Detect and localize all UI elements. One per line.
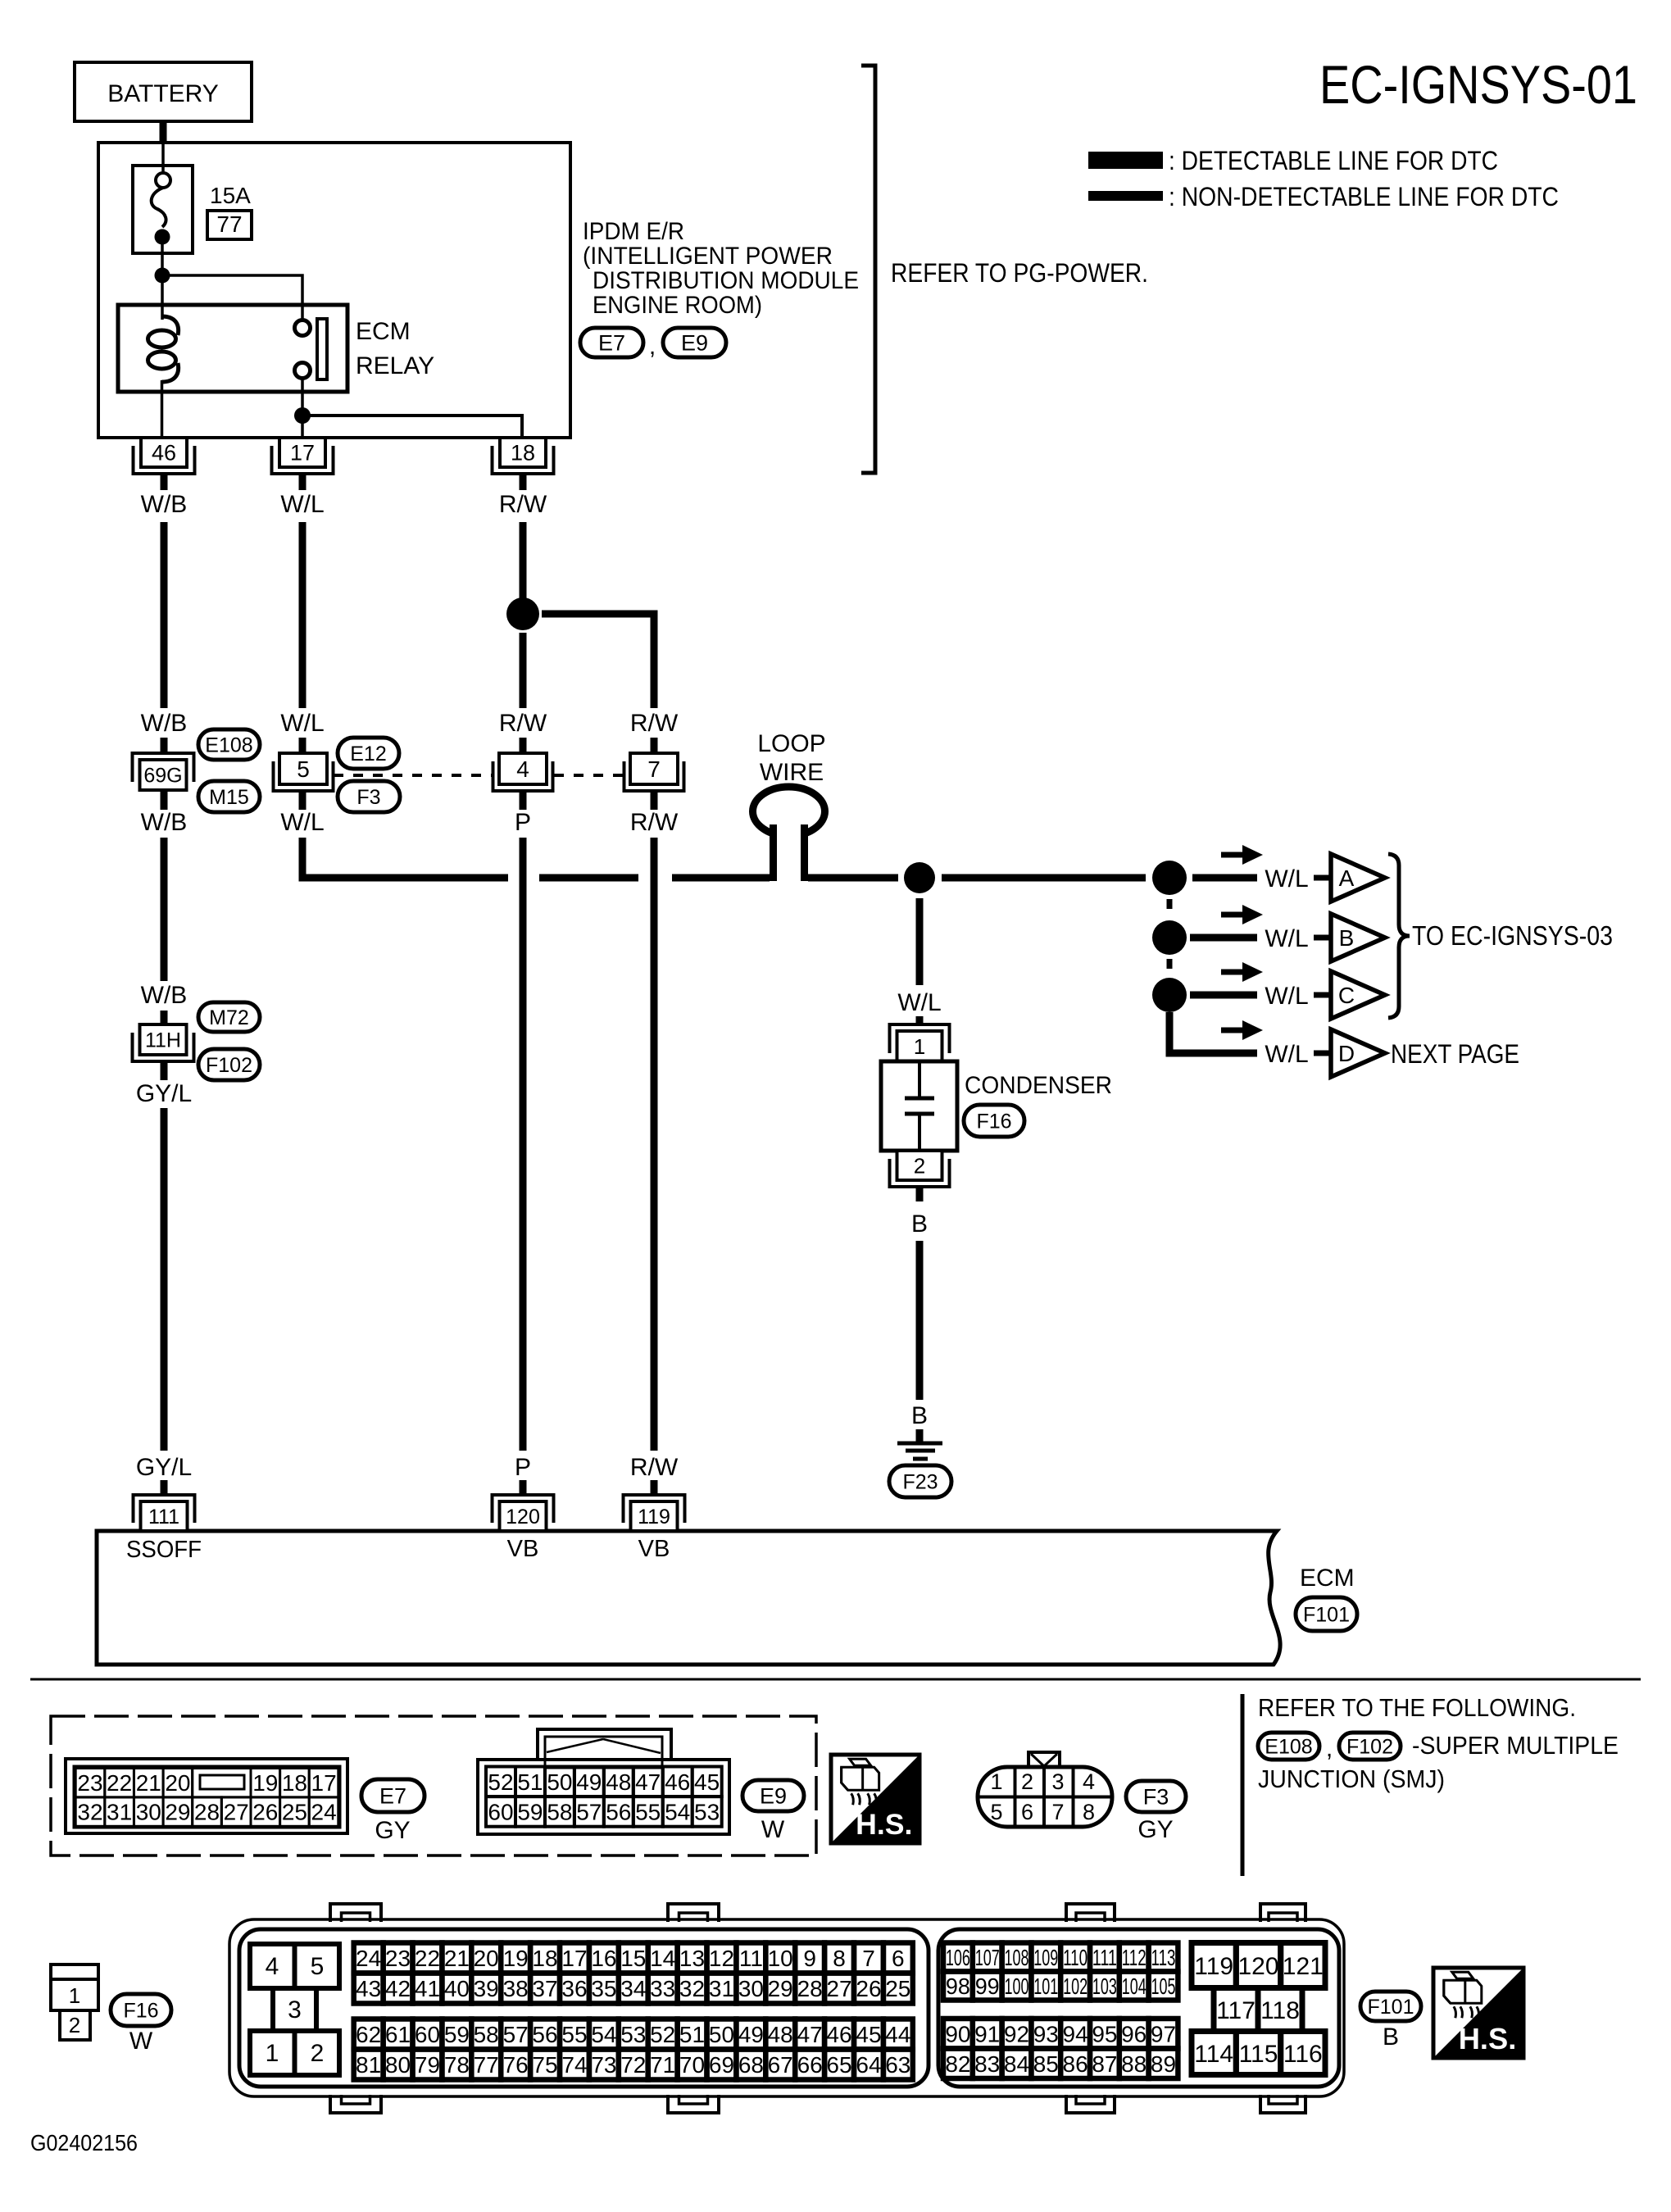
oval E9 [742, 1780, 804, 1811]
junction dot R/W [506, 597, 539, 630]
svg-text:20: 20 [474, 1946, 499, 1971]
svg-text:(INTELLIGENT POWER: (INTELLIGENT POWER [583, 243, 833, 270]
svg-text:91: 91 [974, 2021, 1000, 2046]
svg-text:27: 27 [224, 1800, 249, 1825]
svg-text:112: 112 [1122, 1945, 1147, 1970]
svg-text:34: 34 [620, 1976, 646, 2001]
connector E7 view [66, 1759, 347, 1833]
svg-text:20: 20 [165, 1770, 190, 1796]
pin grid 90-97 / 82-89 [943, 2019, 1178, 2078]
svg-text:45: 45 [856, 2022, 881, 2047]
connector ref E7 oval [580, 328, 643, 357]
arrow row B [1221, 912, 1244, 918]
svg-text:70: 70 [679, 2052, 705, 2078]
svg-text:W/L: W/L [1265, 983, 1308, 1010]
legend detectable line [1088, 146, 1498, 175]
wire B long [916, 1241, 924, 1400]
svg-text:W/L: W/L [1265, 925, 1308, 952]
svg-text:72: 72 [620, 2052, 646, 2078]
svg-text:115: 115 [1239, 2041, 1278, 2068]
svg-text:90: 90 [945, 2021, 970, 2046]
svg-text:2: 2 [311, 2040, 325, 2067]
junction dot B [1152, 920, 1187, 955]
connector 69G (SMJ) [140, 760, 187, 790]
svg-text:65: 65 [826, 2052, 851, 2078]
svg-text:1: 1 [69, 1983, 80, 2008]
pin 18 [500, 438, 546, 467]
svg-text:102: 102 [1063, 1974, 1088, 1999]
svg-text:68: 68 [738, 2052, 764, 2078]
IPDM E/R box [98, 143, 570, 438]
svg-text:116: 116 [1283, 2041, 1323, 2068]
svg-text:27: 27 [826, 1976, 851, 2001]
svg-text:19: 19 [503, 1946, 529, 1971]
wire dot C to triangle C [1190, 992, 1257, 999]
svg-text:101: 101 [1033, 1974, 1058, 1999]
wire stub to pin 111 [161, 1480, 168, 1494]
svg-text:9: 9 [803, 1946, 816, 1971]
svg-text:F16: F16 [123, 2000, 158, 2023]
pin block 4 5 3 1 2 [250, 1944, 339, 2075]
svg-text:100: 100 [1005, 1974, 1029, 1999]
connector 11H (SMJ) [140, 1024, 187, 1055]
svg-text:18: 18 [511, 441, 535, 466]
svg-text:3: 3 [1051, 1769, 1064, 1794]
svg-text:106: 106 [946, 1945, 970, 1970]
stub row B [1314, 935, 1329, 941]
stub row A [1314, 875, 1329, 881]
svg-text:23: 23 [385, 1946, 411, 1971]
svg-text:W/B: W/B [141, 710, 188, 737]
wire stub to ground [916, 1429, 924, 1442]
stub row C [1314, 992, 1329, 998]
svg-text:F3: F3 [1143, 1785, 1169, 1810]
svg-text:SSOFF: SSOFF [126, 1537, 202, 1563]
svg-text:12: 12 [709, 1946, 734, 1971]
svg-text:19: 19 [252, 1770, 278, 1796]
triangle A [1331, 854, 1385, 902]
svg-text:R/W: R/W [499, 491, 547, 518]
oval F23 [889, 1465, 951, 1497]
svg-text:31: 31 [107, 1800, 132, 1825]
oval M72 [198, 1002, 260, 1032]
svg-text:: NON-DETECTABLE LINE FOR DTC: : NON-DETECTABLE LINE FOR DTC [1169, 182, 1559, 211]
svg-text:TO EC-IGNSYS-03: TO EC-IGNSYS-03 [1412, 920, 1613, 951]
H.S. logo top [831, 1755, 920, 1843]
svg-text:7: 7 [1051, 1800, 1064, 1824]
svg-text:57: 57 [503, 2022, 529, 2047]
wire junction to relay contact [162, 275, 302, 320]
svg-text:30: 30 [136, 1800, 161, 1825]
svg-text:76: 76 [503, 2052, 529, 2078]
junction dot below contact [294, 407, 311, 424]
fuse 15A box [133, 166, 193, 253]
svg-text:W/B: W/B [141, 982, 188, 1009]
svg-text:GY: GY [1137, 1816, 1173, 1843]
svg-text:17: 17 [561, 1946, 587, 1971]
svg-text:2: 2 [69, 2013, 80, 2037]
svg-text:33: 33 [650, 1976, 675, 2001]
wire battery to IPDM [160, 121, 167, 143]
svg-text:17: 17 [290, 441, 315, 466]
wire stub to condenser pin 1 [916, 1016, 924, 1026]
wire dot A to triangle A [1192, 874, 1257, 882]
svg-text:79: 79 [415, 2052, 440, 2078]
svg-text:B: B [1339, 925, 1355, 951]
wire below connector 7 [651, 791, 658, 810]
svg-text:7: 7 [862, 1946, 875, 1971]
svg-text:77: 77 [474, 2052, 499, 2078]
dashed line connector 5 to 4 [334, 774, 492, 777]
svg-text:51: 51 [517, 1769, 543, 1795]
arrow row A [1221, 852, 1244, 858]
svg-text:ECM: ECM [356, 318, 411, 345]
separator line [30, 1678, 1641, 1681]
svg-text:5: 5 [297, 756, 310, 782]
connector ref E9 oval [663, 328, 726, 357]
wire W/B long [161, 522, 168, 708]
svg-text:F102: F102 [1346, 1736, 1393, 1759]
svg-text:53: 53 [694, 1799, 720, 1824]
svg-text:E108: E108 [1265, 1736, 1312, 1759]
pin grid 106-113 / 98-105 [943, 1943, 1178, 2001]
svg-text:73: 73 [591, 2052, 616, 2078]
svg-text:84: 84 [1004, 2051, 1029, 2077]
fuse number 77 box [207, 211, 252, 239]
svg-text:77: 77 [216, 211, 242, 237]
svg-text:55: 55 [561, 2022, 587, 2047]
svg-text:25: 25 [282, 1800, 307, 1825]
svg-text:78: 78 [444, 2052, 470, 2078]
pin 46 [141, 438, 187, 467]
svg-text:7: 7 [647, 756, 661, 782]
bus wire W/L segment 1 [539, 874, 638, 882]
dashed line connector 4 to 7 [554, 774, 623, 777]
oval E108 ref [1258, 1733, 1319, 1760]
svg-text:W/L: W/L [280, 809, 324, 836]
svg-text:E12: E12 [350, 743, 386, 765]
wire stub to pin 120 [520, 1480, 527, 1494]
svg-text:54: 54 [665, 1799, 690, 1824]
oval F102 ref [1339, 1733, 1401, 1760]
svg-text:RELAY: RELAY [356, 352, 434, 379]
svg-text:119: 119 [638, 1506, 670, 1528]
svg-text:107: 107 [975, 1945, 1000, 1970]
triangle B [1331, 914, 1385, 961]
svg-text:109: 109 [1033, 1945, 1058, 1970]
svg-text:,: , [1326, 1735, 1333, 1762]
svg-text:GY/L: GY/L [136, 1080, 192, 1107]
svg-text:46: 46 [665, 1769, 690, 1795]
svg-text:89: 89 [1151, 2051, 1176, 2077]
pin 17 [279, 438, 325, 467]
junction dot A [1152, 861, 1187, 895]
svg-text:M72: M72 [209, 1006, 249, 1029]
svg-text:56: 56 [606, 1799, 631, 1824]
oval E12 [338, 738, 399, 769]
svg-text:117: 117 [1216, 1997, 1256, 2024]
svg-text:REFER TO PG-POWER.: REFER TO PG-POWER. [891, 258, 1148, 288]
svg-text:CONDENSER: CONDENSER [965, 1072, 1112, 1099]
svg-text:E7: E7 [379, 1784, 406, 1809]
svg-text:69G: 69G [143, 765, 182, 788]
wire W/B stub below pin 46 [161, 474, 168, 490]
wire W/L stub below pin 17 [299, 474, 307, 490]
svg-text:W/L: W/L [280, 710, 324, 737]
svg-text:E108: E108 [205, 734, 252, 757]
oval F16 ref [111, 1994, 171, 2026]
svg-text:15: 15 [620, 1946, 646, 1971]
svg-text:ECM: ECM [1300, 1565, 1355, 1592]
svg-text:46: 46 [152, 441, 176, 466]
wire R/W to junction [520, 522, 527, 604]
brace to EC-IGNSYS-03 [1388, 854, 1410, 1018]
svg-text:F16: F16 [976, 1111, 1011, 1133]
pin 111 [141, 1501, 188, 1531]
svg-text:WIRE: WIRE [760, 759, 824, 786]
wire W/B long 2 [161, 838, 168, 981]
svg-text:25: 25 [885, 1976, 910, 2001]
svg-text:36: 36 [561, 1976, 587, 2001]
svg-text:119: 119 [1194, 1953, 1233, 1980]
wire dot C to row D [1169, 1012, 1257, 1053]
svg-text:D: D [1338, 1041, 1355, 1066]
battery [75, 62, 252, 121]
svg-text:46: 46 [826, 2022, 851, 2047]
svg-text:52: 52 [650, 2022, 675, 2047]
svg-text:31: 31 [709, 1976, 734, 2001]
svg-text:83: 83 [974, 2051, 1000, 2077]
connector 4 (E12/F3) [499, 753, 547, 784]
svg-text:47: 47 [797, 2022, 823, 2047]
dashed link dot A to dot B [1167, 899, 1173, 917]
svg-text:26: 26 [252, 1800, 278, 1825]
junction dot C [1152, 978, 1187, 1012]
svg-text:75: 75 [532, 2052, 557, 2078]
svg-text:14: 14 [650, 1946, 675, 1971]
svg-text:67: 67 [768, 2052, 793, 2078]
svg-text:57: 57 [576, 1799, 602, 1824]
svg-text:6: 6 [1021, 1800, 1033, 1824]
svg-text:F101: F101 [1303, 1604, 1350, 1627]
svg-text:GY/L: GY/L [136, 1454, 192, 1481]
wire stub to connector 7 [651, 738, 658, 753]
wire below connector 4 [520, 791, 527, 810]
svg-text:21: 21 [444, 1946, 470, 1971]
svg-text:5: 5 [990, 1800, 1002, 1824]
svg-text:110: 110 [1063, 1945, 1088, 1970]
wire W/L long [299, 522, 307, 708]
dashed link dot B to dot C [1167, 959, 1173, 977]
wire contact to junction [301, 378, 304, 438]
svg-text:G02402156: G02402156 [30, 2130, 138, 2155]
wire dot B to triangle B [1190, 934, 1257, 942]
svg-text:23: 23 [77, 1770, 102, 1796]
svg-text:W: W [129, 2028, 153, 2055]
svg-text:28: 28 [194, 1800, 220, 1825]
svg-text:H.S.: H.S. [1459, 2022, 1517, 2055]
svg-text:,: , [649, 333, 656, 360]
wire R/W long to pin 119 [651, 838, 658, 1451]
svg-text:4: 4 [516, 756, 529, 782]
svg-text:60: 60 [488, 1799, 513, 1824]
svg-text:54: 54 [591, 2022, 616, 2047]
ECM relay box [118, 305, 347, 392]
wire stub to connector 4 [520, 738, 527, 753]
oval F16 [964, 1105, 1024, 1137]
svg-text:W/B: W/B [141, 809, 188, 836]
svg-text:58: 58 [547, 1799, 572, 1824]
wire stub to 11H [161, 1011, 168, 1026]
svg-text:DISTRIBUTION MODULE: DISTRIBUTION MODULE [593, 267, 859, 294]
svg-text:H.S.: H.S. [856, 1808, 912, 1841]
svg-text:W/L: W/L [1265, 1041, 1308, 1068]
svg-text:114: 114 [1194, 2041, 1233, 2068]
svg-text:22: 22 [107, 1770, 132, 1796]
svg-text:11H: 11H [145, 1029, 181, 1052]
svg-text:W: W [761, 1816, 785, 1843]
svg-text:39: 39 [474, 1976, 499, 2001]
svg-text:50: 50 [709, 2022, 734, 2047]
svg-text:W/L: W/L [1265, 865, 1308, 893]
svg-text:F102: F102 [206, 1054, 252, 1077]
svg-text:1: 1 [990, 1769, 1002, 1794]
svg-text:NEXT PAGE: NEXT PAGE [1391, 1039, 1519, 1069]
svg-text:E9: E9 [681, 331, 708, 356]
svg-text:63: 63 [885, 2052, 910, 2078]
svg-text:120: 120 [506, 1506, 540, 1528]
svg-text:95: 95 [1092, 2021, 1117, 2046]
svg-text:17: 17 [311, 1770, 337, 1796]
oval F101 ref [1360, 1992, 1421, 2021]
svg-text:21: 21 [136, 1770, 161, 1796]
svg-text:118: 118 [1260, 1997, 1300, 2024]
svg-text:82: 82 [945, 2051, 970, 2077]
svg-text:81: 81 [356, 2052, 381, 2078]
svg-text:37: 37 [532, 1976, 557, 2001]
svg-text:51: 51 [679, 2022, 705, 2047]
H.S. logo bottom [1433, 1968, 1523, 2058]
wire stub to connector 5 [299, 738, 307, 753]
wire junction to pin 18 [302, 416, 522, 438]
oval F101 [1296, 1597, 1357, 1631]
triangle D [1331, 1029, 1385, 1077]
svg-text:104: 104 [1122, 1974, 1147, 1999]
svg-text:92: 92 [1004, 2021, 1029, 2046]
svg-text:2: 2 [1021, 1769, 1033, 1794]
svg-text:48: 48 [606, 1769, 631, 1795]
junction dot below fuse [155, 268, 170, 284]
label LOOP WIRE [757, 730, 825, 786]
svg-text:49: 49 [576, 1769, 602, 1795]
svg-text:38: 38 [503, 1976, 529, 2001]
svg-text:: DETECTABLE LINE FOR DTC: : DETECTABLE LINE FOR DTC [1169, 146, 1498, 175]
svg-text:R/W: R/W [499, 710, 547, 737]
pin grid 62-44 / 81-63 [354, 2019, 913, 2080]
svg-text:M15: M15 [209, 786, 249, 809]
svg-text:61: 61 [385, 2022, 411, 2047]
bracket for pg-power note [861, 66, 875, 473]
bus wire W/L segment 3 [808, 874, 898, 882]
svg-text:49: 49 [738, 2022, 764, 2047]
svg-text:105: 105 [1151, 1974, 1176, 1999]
svg-text:5: 5 [311, 1953, 325, 1980]
svg-text:40: 40 [444, 1976, 470, 2001]
condenser body [881, 1061, 957, 1151]
condenser pin 1 [897, 1031, 942, 1061]
svg-text:66: 66 [797, 2052, 823, 2078]
relay contact [295, 319, 328, 379]
svg-text:26: 26 [856, 1976, 881, 2001]
wire below condenser [916, 1187, 924, 1201]
dashed connector group box [51, 1716, 816, 1855]
branch wire to connector 7 [542, 614, 654, 708]
relay coil [148, 316, 179, 438]
stub row D [1314, 1051, 1329, 1056]
svg-text:121: 121 [1283, 1953, 1324, 1980]
wire W/L to condenser [916, 898, 924, 985]
svg-text:87: 87 [1092, 2051, 1117, 2077]
svg-text:4: 4 [1083, 1769, 1095, 1794]
svg-text:59: 59 [444, 2022, 470, 2047]
svg-text:58: 58 [474, 2022, 499, 2047]
connector 5 (E12/F3) [279, 753, 327, 784]
svg-text:41: 41 [415, 1976, 440, 2001]
svg-text:10: 10 [768, 1946, 793, 1971]
svg-text:F101: F101 [1368, 1996, 1414, 2019]
triangle C [1331, 971, 1385, 1019]
svg-text:22: 22 [415, 1946, 440, 1971]
svg-text:50: 50 [547, 1769, 572, 1795]
connector E9 view [478, 1729, 729, 1834]
pin 120 [500, 1501, 547, 1531]
svg-text:88: 88 [1121, 2051, 1147, 2077]
svg-text:P: P [515, 809, 531, 836]
svg-text:52: 52 [488, 1769, 513, 1795]
svg-text:53: 53 [620, 2022, 646, 2047]
svg-text:A: A [1339, 865, 1355, 891]
svg-text:71: 71 [650, 2052, 675, 2078]
svg-text:R/W: R/W [630, 1454, 679, 1481]
svg-text:69: 69 [709, 2052, 734, 2078]
svg-text:W/L: W/L [280, 491, 324, 518]
svg-text:55: 55 [635, 1799, 661, 1824]
svg-text:103: 103 [1092, 1974, 1117, 1999]
oval F3 [338, 781, 400, 812]
svg-text:86: 86 [1063, 2051, 1088, 2077]
svg-text:8: 8 [833, 1946, 846, 1971]
svg-text:EC-IGNSYS-01: EC-IGNSYS-01 [1319, 54, 1637, 115]
svg-text:98: 98 [946, 1974, 970, 1999]
svg-text:45: 45 [694, 1769, 720, 1795]
svg-text:GY: GY [375, 1817, 410, 1844]
svg-text:15A: 15A [210, 183, 251, 208]
svg-text:97: 97 [1151, 2021, 1176, 2046]
svg-text:3: 3 [288, 1996, 302, 2024]
pin 119 [631, 1501, 678, 1531]
condenser pin 2 [897, 1151, 942, 1180]
svg-text:80: 80 [385, 2052, 411, 2078]
svg-text:62: 62 [356, 2022, 381, 2047]
svg-text:113: 113 [1151, 1945, 1176, 1970]
svg-text:11: 11 [739, 1946, 763, 1971]
svg-text:LOOP: LOOP [757, 730, 825, 757]
pin grid 24-6 / 43-25 [354, 1943, 913, 2004]
svg-text:30: 30 [738, 1976, 764, 2001]
svg-text:B: B [1383, 2024, 1399, 2051]
ECM connector outer shell [229, 1904, 1344, 2113]
legend non-detectable line [1088, 182, 1559, 211]
